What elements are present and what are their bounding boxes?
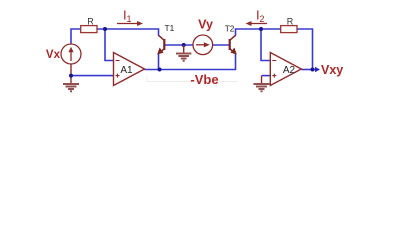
A1 minus sign <box>116 60 120 62</box>
transistor T2 <box>230 35 236 53</box>
op-amp A1 <box>114 53 145 86</box>
svg-text:A2: A2 <box>283 65 296 76</box>
wire: T2 collector up to top right rail <box>236 29 281 36</box>
resistor R (feedback) <box>281 26 297 33</box>
faint frame line near -Vbe <box>147 76 237 82</box>
terminal arrow Vxy <box>315 67 320 72</box>
wire: T1 base to ground node to Vy <box>165 44 193 46</box>
wire: node I2 down to A2 inverting input <box>261 29 270 61</box>
wire: resistor R to T1 collector corner <box>97 29 159 36</box>
svg-text:T2: T2 <box>225 24 235 34</box>
wire: A1 output long rail to T2 emitter <box>145 53 236 69</box>
wire: node I1 down to A1 inverting input <box>105 29 114 61</box>
wire: feedback R to A2 output <box>297 29 313 70</box>
svg-text:-Vbe: -Vbe <box>190 72 218 87</box>
junction node A2 out / feedback <box>311 68 315 72</box>
ground (below Vx) <box>63 84 79 91</box>
wire: T1 emitter down to output rail <box>158 53 160 69</box>
svg-text:2: 2 <box>260 14 265 24</box>
op-amp A2 <box>270 53 301 86</box>
svg-text:Vx: Vx <box>46 49 61 61</box>
junction node A1 out / T1 emitter <box>158 68 162 72</box>
wire: A2 + input <box>262 75 271 77</box>
voltage source Vy <box>193 35 213 55</box>
svg-text:R: R <box>87 16 94 26</box>
svg-text:A1: A1 <box>120 65 133 76</box>
ground (A2 + input) <box>254 84 270 91</box>
wire: A2 output to Vxy terminal <box>301 69 316 71</box>
A2 plus sign <box>272 74 276 78</box>
A2 minus sign <box>272 60 276 62</box>
A1 plus sign <box>116 74 120 78</box>
junction node Vx- / A1+ <box>69 74 73 78</box>
junction node I1 <box>103 27 107 31</box>
junction node T1 base / ground <box>182 43 186 47</box>
junction node I2 <box>259 27 263 31</box>
resistor R (input) <box>81 26 97 33</box>
svg-text:T1: T1 <box>165 23 175 33</box>
voltage source Vx <box>61 44 81 64</box>
svg-text:R: R <box>287 16 294 26</box>
current arrow I1 <box>117 23 138 25</box>
wire: top left rail Vx to resistor R <box>71 29 81 44</box>
svg-text:Vy: Vy <box>198 18 213 32</box>
wire: Vy right to T2 base <box>213 44 230 46</box>
wire: Vx bottom lead to ground <box>70 64 72 84</box>
wire: A1 + input <box>71 75 114 77</box>
svg-text:1: 1 <box>127 14 132 24</box>
transistor T1 <box>159 35 165 53</box>
lead: A2 + to ground <box>261 76 263 84</box>
svg-text:Vxy: Vxy <box>321 63 343 77</box>
ground (T1 base) <box>176 45 191 61</box>
current arrow I2 <box>251 23 268 25</box>
